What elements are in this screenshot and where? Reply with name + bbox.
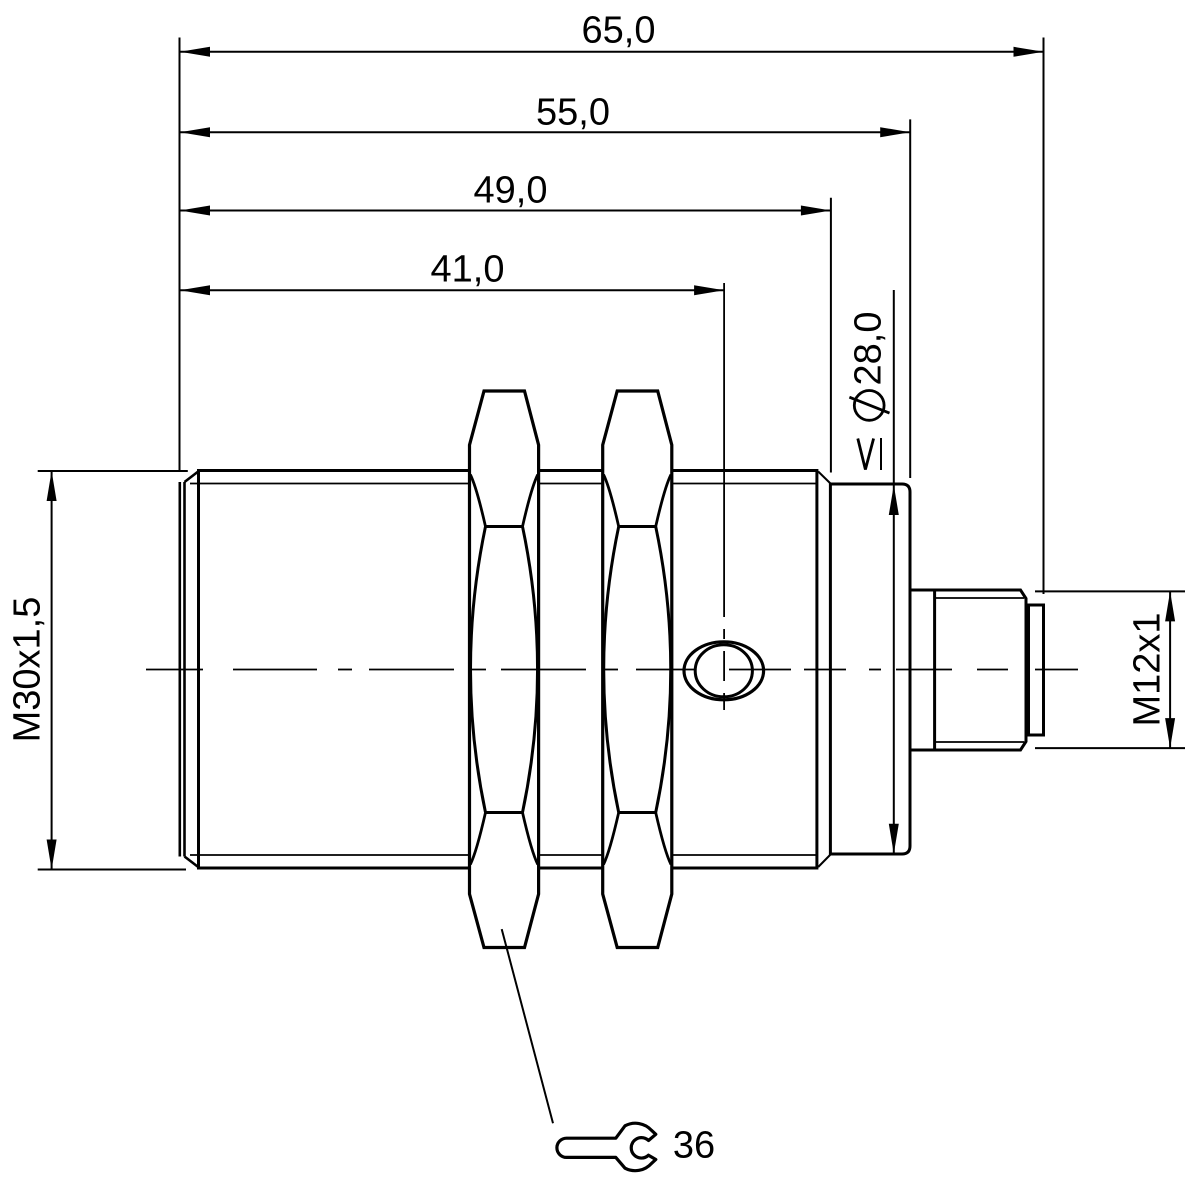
dimension 55,0: [180, 92, 910, 138]
thread root line top: [190, 483, 817, 485]
M12 connector barrel: [910, 590, 1026, 750]
rear cap housing: [830, 484, 910, 854]
dimension 65,0: [180, 10, 1044, 57]
svg-text:M30x1,5: M30x1,5: [7, 597, 49, 743]
dimension diameter 28,0: [848, 290, 899, 854]
LED indicator: [684, 642, 764, 700]
dimension 41,0: [180, 249, 724, 296]
svg-text:65,0: 65,0: [582, 10, 656, 52]
dimension M30x1,5: [7, 471, 188, 870]
extension line 49,0 right: [830, 198, 832, 473]
connector thread root line top: [935, 597, 1024, 599]
svg-text:36: 36: [673, 1125, 715, 1167]
wrench icon: [557, 1123, 656, 1170]
diameter symbol: [854, 391, 884, 421]
axis centerline horizontal: [146, 669, 1078, 671]
extension line left (shared): [179, 38, 181, 472]
connector tip: [1029, 605, 1044, 735]
thread root line bottom: [190, 854, 817, 856]
sensor barrel body: [199, 471, 817, 869]
svg-text:M12x1: M12x1: [1127, 612, 1169, 726]
svg-text:41,0: 41,0: [431, 249, 505, 291]
sensing face left cap: [180, 471, 200, 869]
rear step chamfers: [818, 472, 831, 485]
extension line 65,0 right: [1043, 38, 1045, 595]
connector neck divider: [933, 590, 936, 750]
LED centerline vertical: [723, 283, 725, 710]
hex nut 2: [603, 391, 672, 948]
dimension 49,0: [180, 170, 831, 216]
svg-text:49,0: 49,0: [474, 170, 548, 212]
dimension M12x1: [1035, 591, 1185, 748]
hex nut 1: [470, 391, 539, 948]
leader line to wrench: [502, 929, 553, 1123]
connector thread root line bottom: [935, 741, 1024, 743]
extension line 55,0 right: [909, 119, 911, 478]
svg-text:55,0: 55,0: [536, 92, 610, 134]
svg-text:28,0: 28,0: [848, 312, 890, 386]
less-equal symbol: [858, 439, 874, 470]
